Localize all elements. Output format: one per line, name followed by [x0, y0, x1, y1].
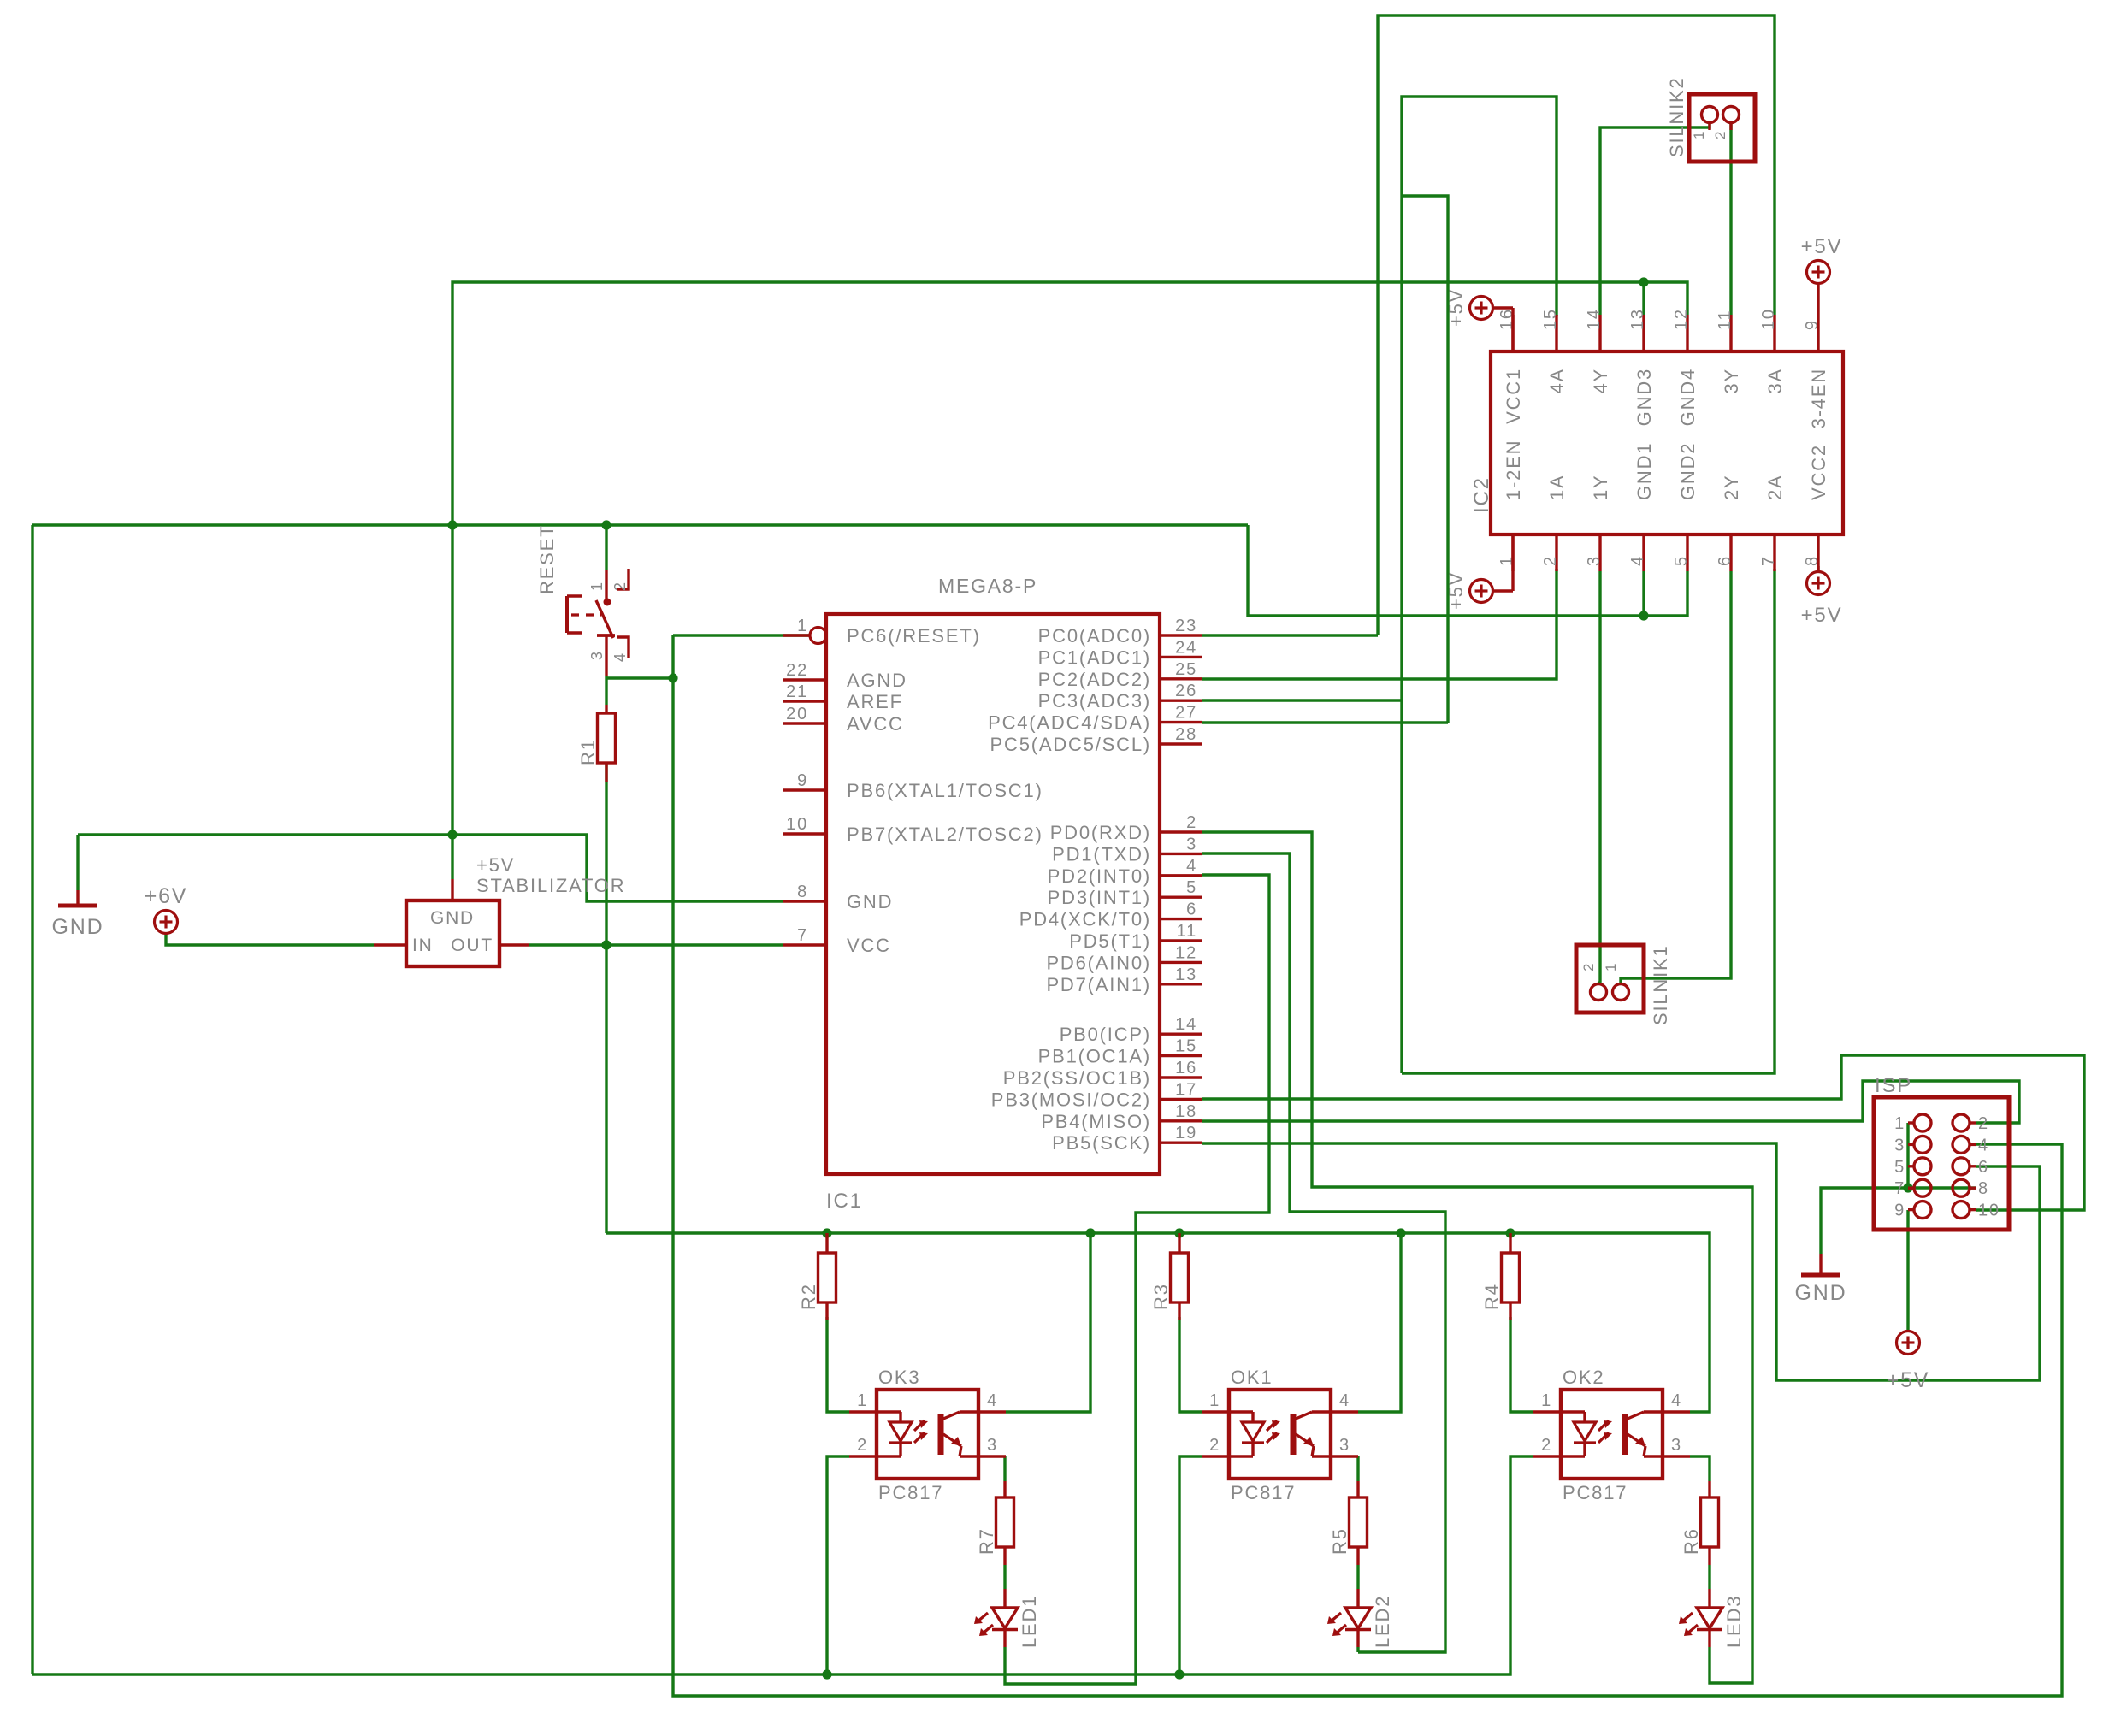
svg-text:PB6(XTAL1/TOSC1): PB6(XTAL1/TOSC1): [847, 780, 1043, 801]
svg-text:22: 22: [786, 661, 808, 680]
wire IC2 pin8 to +5V: [1817, 566, 1819, 571]
svg-text:4: 4: [1186, 857, 1197, 876]
svg-text:4Y: 4Y: [1590, 368, 1611, 394]
svg-text:VCC1: VCC1: [1503, 368, 1524, 424]
svg-text:IN: IN: [412, 936, 434, 955]
optocoupler OK2: [1533, 1367, 1690, 1503]
svg-text:16: 16: [1175, 1059, 1197, 1078]
wire LED3 return to PD0: [1202, 832, 1752, 1683]
svg-text:7: 7: [1894, 1179, 1905, 1198]
wire PC0 to 3A net top loop: [1378, 15, 1775, 635]
wire OK3 pin3 to R7: [1003, 1456, 1006, 1481]
svg-text:10: 10: [1759, 308, 1778, 330]
svg-text:5: 5: [1672, 555, 1691, 566]
wire GND top rail: [452, 282, 1644, 835]
svg-text:3: 3: [1585, 555, 1604, 566]
svg-text:9: 9: [1803, 319, 1822, 330]
svg-text:VCC2: VCC2: [1808, 444, 1829, 500]
svg-text:LED1: LED1: [1019, 1595, 1040, 1648]
wire PC3 pin26: [1202, 721, 1448, 723]
wire IC2 pin4 GND1 stub: [1642, 571, 1645, 616]
svg-text:7: 7: [797, 926, 808, 945]
svg-text:R3: R3: [1150, 1283, 1172, 1310]
svg-text:R2: R2: [798, 1283, 819, 1310]
svg-text:23: 23: [1175, 617, 1197, 635]
svg-text:1Y: 1Y: [1590, 474, 1611, 500]
svg-text:4A: 4A: [1546, 368, 1568, 394]
wire GND to IC2 pin13: [1642, 282, 1645, 315]
svg-text:2: 2: [1580, 962, 1597, 971]
svg-text:3-4EN: 3-4EN: [1808, 368, 1829, 428]
svg-text:GND1: GND1: [1634, 442, 1655, 500]
resistor R4: [1481, 1233, 1520, 1320]
svg-text:1: 1: [797, 617, 808, 635]
svg-text:13: 13: [1175, 965, 1197, 984]
svg-text:15: 15: [1175, 1037, 1197, 1056]
svg-text:3A: 3A: [1764, 368, 1786, 394]
svg-text:6: 6: [1186, 900, 1197, 919]
motor driver IC2: [1470, 308, 1843, 571]
resistor R3: [1150, 1233, 1189, 1320]
svg-text:R6: R6: [1681, 1527, 1702, 1555]
wire ISP GND row: [1821, 1188, 1976, 1254]
svg-text:PC5(ADC5/SCL): PC5(ADC5/SCL): [990, 734, 1151, 755]
svg-text:OK3: OK3: [878, 1367, 920, 1388]
svg-text:GND3: GND3: [1634, 368, 1655, 426]
svg-text:RESET: RESET: [536, 524, 558, 594]
svg-text:4: 4: [1671, 1391, 1682, 1410]
svg-text:+5V: +5V: [476, 854, 515, 876]
svg-text:6: 6: [1978, 1158, 1989, 1177]
svg-text:SILNIK2: SILNIK2: [1666, 76, 1687, 157]
wire OK3 pin4 riser: [1006, 1233, 1090, 1412]
wire GND horizontal bus y614: [32, 523, 1248, 526]
wire +6V to IN: [166, 934, 374, 945]
wire PC2 pin25: [1202, 699, 1402, 701]
svg-text:+5V: +5V: [1445, 288, 1467, 327]
svg-text:14: 14: [1175, 1015, 1197, 1034]
svg-text:25: 25: [1175, 660, 1197, 679]
svg-text:LED3: LED3: [1723, 1595, 1745, 1648]
wire PC1 pin24 to IC2 pin2 1A: [1202, 569, 1557, 679]
+6V supply: [145, 884, 188, 934]
svg-text:R1: R1: [577, 738, 599, 765]
svg-text:GND: GND: [52, 915, 104, 939]
svg-text:8: 8: [1978, 1179, 1989, 1198]
resistor R7: [976, 1481, 1014, 1565]
optocoupler OK3: [849, 1367, 1006, 1503]
svg-text:26: 26: [1175, 682, 1197, 700]
svg-text:PB0(ICP): PB0(ICP): [1060, 1024, 1151, 1045]
svg-text:2: 2: [1541, 555, 1560, 566]
wire SILNIK2 pin2 to IC2 pin11 3Y: [1729, 123, 1732, 315]
svg-text:17: 17: [1175, 1080, 1197, 1099]
voltage regulator stabilizator: [374, 854, 625, 966]
LED2: [1327, 1565, 1393, 1652]
+5V supply IC2 pin16: [1445, 288, 1513, 351]
svg-text:24: 24: [1175, 638, 1197, 657]
wire left GND column x38: [31, 525, 33, 1674]
svg-text:PD0(RXD): PD0(RXD): [1050, 822, 1151, 843]
svg-text:1: 1: [588, 581, 606, 591]
pushbutton RESET: [536, 524, 629, 676]
wire spur y229 to PC3 riser: [1402, 196, 1448, 723]
wire ISP pin9 to +5V: [1906, 1210, 1909, 1331]
svg-text:4: 4: [1339, 1391, 1350, 1410]
connector SILNIK1: [1576, 944, 1671, 1025]
svg-text:3Y: 3Y: [1721, 368, 1742, 394]
wire LED1 return to PD2: [1005, 875, 1269, 1684]
wire reset net switch top: [605, 525, 607, 570]
svg-text:11: 11: [1716, 310, 1734, 330]
svg-text:VCC: VCC: [847, 935, 891, 956]
svg-text:1: 1: [1541, 1391, 1552, 1410]
svg-text:8: 8: [797, 883, 808, 901]
GND symbol left: [52, 835, 104, 939]
wire ISP left column: [1906, 1123, 1909, 1188]
svg-text:+5V: +5V: [1801, 604, 1843, 627]
svg-text:19: 19: [1175, 1124, 1197, 1143]
svg-text:2A: 2A: [1764, 474, 1786, 500]
wire reset bus2 via ISP pin4: [673, 635, 2062, 1696]
svg-text:ISP: ISP: [1875, 1074, 1912, 1097]
svg-text:1-2EN: 1-2EN: [1503, 440, 1524, 500]
svg-text:13: 13: [1628, 308, 1647, 330]
wire PB4 MISO to ISP pin2: [1202, 1081, 2019, 1123]
+5V supply IC2 pin9: [1801, 235, 1843, 284]
svg-text:5: 5: [1894, 1158, 1905, 1177]
svg-text:2: 2: [1978, 1114, 1989, 1133]
wire SILNIK1 pin1 to IC2 pin6 2Y: [1621, 571, 1731, 983]
wire GND to IC2 pin12: [1644, 282, 1687, 315]
wire GND drop to IC2 pins 4-5: [1248, 525, 1644, 616]
svg-text:R4: R4: [1481, 1283, 1503, 1310]
svg-text:GND: GND: [1795, 1281, 1847, 1305]
svg-text:12: 12: [1672, 308, 1691, 330]
wire +5V OUT rail to VCC pin7: [529, 943, 783, 946]
wire OK2 pin3 to R6: [1690, 1456, 1710, 1481]
wire stab GND pin drop: [451, 835, 453, 879]
svg-text:PC817: PC817: [1563, 1482, 1628, 1503]
svg-text:15: 15: [1541, 308, 1560, 330]
svg-text:OK1: OK1: [1231, 1367, 1273, 1388]
resistor R1: [577, 705, 616, 782]
+5V supply below ISP: [1887, 1332, 1930, 1393]
wire bottom bus1 to opto pin2s: [32, 1456, 1533, 1674]
svg-text:PD2(INT0): PD2(INT0): [1048, 865, 1151, 887]
svg-text:8: 8: [1803, 555, 1822, 566]
svg-text:4: 4: [987, 1391, 998, 1410]
svg-text:9: 9: [797, 771, 808, 790]
svg-text:+5V: +5V: [1887, 1368, 1930, 1392]
svg-text:2Y: 2Y: [1721, 474, 1742, 500]
svg-text:9: 9: [1894, 1202, 1905, 1220]
svg-text:PB3(MOSI/OC2): PB3(MOSI/OC2): [991, 1089, 1151, 1110]
microcontroller IC1 MEGA8-P: [783, 575, 1202, 1213]
svg-text:20: 20: [786, 705, 808, 723]
wire R3 to OK1 pin1: [1179, 1317, 1202, 1412]
svg-text:IC2: IC2: [1470, 476, 1493, 513]
svg-text:PC2(ADC2): PC2(ADC2): [1038, 669, 1151, 690]
svg-text:1: 1: [1894, 1114, 1905, 1133]
svg-text:+6V: +6V: [145, 884, 188, 908]
svg-text:1A: 1A: [1546, 474, 1568, 500]
svg-text:SILNIK1: SILNIK1: [1650, 944, 1671, 1025]
svg-text:PC817: PC817: [878, 1482, 943, 1503]
svg-text:4: 4: [1628, 555, 1647, 566]
svg-text:AGND: AGND: [847, 670, 907, 691]
wire 4A loop from IC2 pin15: [1402, 97, 1557, 1073]
wire U bottom to IC2 pin7 2A: [1402, 569, 1775, 1073]
resistor R5: [1329, 1481, 1368, 1565]
wire OK1 pin3 to R5: [1356, 1456, 1359, 1481]
svg-text:PC817: PC817: [1231, 1482, 1296, 1503]
resistor R2: [798, 1233, 836, 1320]
svg-text:4: 4: [611, 652, 629, 662]
svg-text:R7: R7: [976, 1527, 997, 1555]
svg-text:1: 1: [1691, 130, 1707, 139]
svg-text:3: 3: [588, 650, 606, 660]
svg-text:PD6(AIN0): PD6(AIN0): [1046, 952, 1151, 973]
svg-text:3: 3: [1671, 1436, 1682, 1455]
+5V supply IC2 pin8: [1801, 572, 1843, 628]
svg-text:6: 6: [1716, 555, 1734, 566]
svg-text:3: 3: [987, 1436, 998, 1455]
svg-text:7: 7: [1759, 555, 1778, 566]
svg-text:PD3(INT1): PD3(INT1): [1048, 887, 1151, 908]
svg-text:PB5(SCK): PB5(SCK): [1052, 1132, 1151, 1154]
svg-text:PD4(XCK/T0): PD4(XCK/T0): [1019, 909, 1151, 930]
optocoupler OK1: [1202, 1367, 1358, 1503]
svg-text:18: 18: [1175, 1102, 1197, 1121]
wire IC2 pin5 GND2 jog: [1644, 571, 1687, 616]
svg-text:IC1: IC1: [826, 1190, 863, 1213]
wire SILNIK2 pin1 to IC2 pin14 4Y: [1600, 123, 1710, 315]
svg-text:2: 2: [1712, 130, 1728, 139]
svg-text:PC1(ADC1): PC1(ADC1): [1038, 647, 1151, 668]
svg-text:27: 27: [1175, 704, 1197, 723]
wire R2 to OK3 pin1: [827, 1317, 849, 1412]
svg-text:+5V: +5V: [1801, 235, 1843, 258]
svg-text:OUT: OUT: [451, 936, 493, 955]
wire OK1 pin4 riser: [1358, 1233, 1401, 1412]
wire stabilizator GND net: [78, 835, 783, 901]
wire PB5 SCK to ISP pin6: [1202, 1143, 2040, 1380]
svg-text:R5: R5: [1329, 1527, 1350, 1555]
wire PB3 MOSI to ISP pin10: [1202, 1055, 2084, 1210]
svg-text:STABILIZATOR: STABILIZATOR: [476, 875, 625, 896]
svg-text:PB2(SS/OC1B): PB2(SS/OC1B): [1003, 1067, 1151, 1089]
svg-text:11: 11: [1177, 922, 1197, 941]
svg-text:PD5(T1): PD5(T1): [1069, 930, 1151, 952]
svg-text:PB7(XTAL2/TOSC2): PB7(XTAL2/TOSC2): [847, 824, 1043, 845]
svg-text:GND4: GND4: [1677, 368, 1699, 426]
wire SILNIK1 pin2 to IC2 pin3 1Y: [1598, 571, 1600, 983]
GND symbol near ISP: [1795, 1254, 1847, 1305]
connector ISP: [1874, 1074, 2009, 1230]
wire IC2 pin9 to +5V: [1817, 285, 1819, 315]
connector SILNIK2: [1666, 76, 1755, 162]
wire PC6 reset wire: [606, 635, 810, 678]
svg-text:2: 2: [611, 581, 629, 591]
svg-text:21: 21: [786, 682, 808, 701]
svg-text:PD7(AIN1): PD7(AIN1): [1046, 974, 1151, 995]
wire IC1 bus VCC: [606, 1233, 1710, 1412]
svg-text:2: 2: [1209, 1436, 1220, 1455]
svg-text:PD1(TXD): PD1(TXD): [1052, 843, 1151, 865]
wire reset net switch to R1: [605, 676, 607, 705]
svg-text:3: 3: [1186, 835, 1197, 853]
svg-text:14: 14: [1585, 308, 1604, 330]
svg-text:2: 2: [857, 1436, 868, 1455]
svg-text:2: 2: [1186, 813, 1197, 832]
wire PC0 pin23 to loop: [1202, 634, 1378, 636]
svg-text:AREF: AREF: [847, 691, 903, 712]
LED3: [1679, 1565, 1745, 1652]
resistor R6: [1681, 1481, 1719, 1565]
svg-text:10: 10: [1978, 1202, 2000, 1220]
+5V supply IC2 pin1: [1445, 534, 1513, 610]
svg-text:1: 1: [1209, 1391, 1220, 1410]
svg-text:PC4(ADC4/SDA): PC4(ADC4/SDA): [988, 712, 1151, 734]
svg-text:12: 12: [1175, 943, 1197, 962]
svg-text:4: 4: [1978, 1136, 1989, 1154]
svg-text:+5V: +5V: [1445, 571, 1467, 610]
svg-text:MEGA8-P: MEGA8-P: [938, 575, 1037, 597]
svg-text:GND: GND: [430, 908, 475, 928]
wire R1 bottom to +5V rail and IC1 bus: [605, 763, 607, 1233]
svg-text:10: 10: [786, 815, 808, 834]
svg-text:1: 1: [1603, 962, 1619, 971]
svg-text:PB4(MISO): PB4(MISO): [1041, 1111, 1151, 1132]
svg-text:28: 28: [1175, 725, 1197, 744]
svg-text:PB1(OC1A): PB1(OC1A): [1038, 1046, 1151, 1067]
svg-text:PC0(ADC0): PC0(ADC0): [1038, 625, 1151, 647]
LED1: [974, 1565, 1040, 1652]
svg-text:3: 3: [1894, 1136, 1905, 1154]
svg-text:AVCC: AVCC: [847, 713, 904, 735]
svg-text:OK2: OK2: [1563, 1367, 1604, 1388]
svg-text:1: 1: [857, 1391, 868, 1410]
wire OK1 pin2 drop: [1179, 1456, 1202, 1674]
wire OK3 pin2 drop: [827, 1456, 849, 1674]
svg-text:2: 2: [1541, 1436, 1552, 1455]
svg-text:3: 3: [1339, 1436, 1350, 1455]
wire R4 to OK2 pin1: [1510, 1317, 1533, 1412]
svg-text:PC3(ADC3): PC3(ADC3): [1038, 690, 1151, 712]
svg-text:PC6(/RESET): PC6(/RESET): [847, 625, 981, 647]
svg-text:LED2: LED2: [1372, 1595, 1393, 1648]
svg-text:GND: GND: [847, 891, 893, 912]
svg-text:GND2: GND2: [1677, 442, 1699, 500]
svg-text:5: 5: [1186, 878, 1197, 897]
wire LED2 return to PD1: [1202, 853, 1445, 1652]
